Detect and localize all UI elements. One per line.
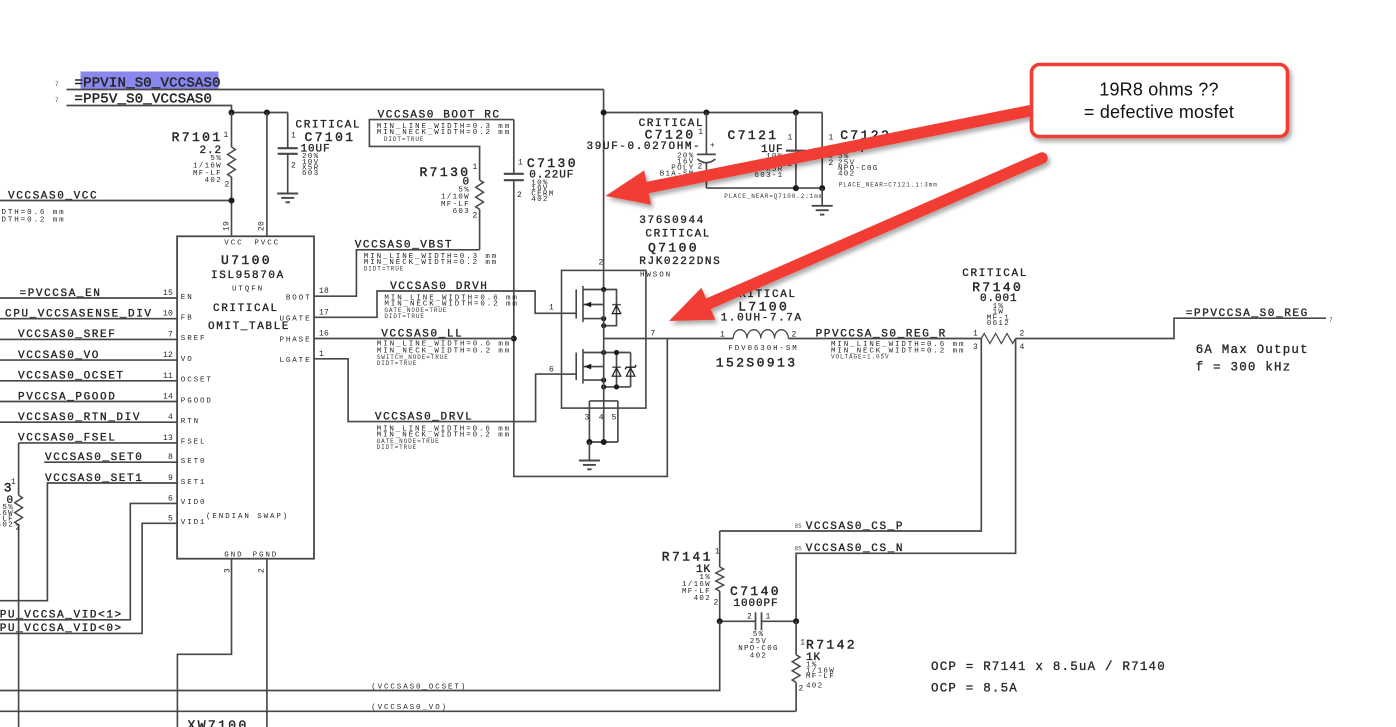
svg-text:2: 2 (225, 180, 230, 189)
svg-text:UGATE: UGATE (279, 315, 311, 323)
svg-text:CRITICAL: CRITICAL (645, 229, 711, 241)
svg-text:FDV0630H-SM: FDV0630H-SM (728, 345, 798, 353)
svg-text:VCCSAS0_OCSET: VCCSAS0_OCSET (18, 371, 125, 383)
net VCCSAS0_SET0 / pin 8 SET0 (44, 461, 177, 463)
svg-text:VID1: VID1 (181, 519, 207, 527)
wire VCC rail to C7101 (232, 112, 288, 114)
svg-text:= defective mosfet: = defective mosfet (1084, 102, 1234, 122)
svg-text:(VCCSAS0_VO): (VCCSAS0_VO) (371, 704, 448, 712)
svg-text:2: 2 (473, 211, 478, 220)
body diodes bottom mosfet (604, 352, 631, 354)
svg-text:1: 1 (319, 350, 324, 359)
svg-text:PLACE_NEAR=C7121.1:3mm: PLACE_NEAR=C7121.1:3mm (839, 181, 938, 188)
net CPU_VCCSASENSE_DIV / pin 10 FB (0, 318, 177, 320)
resistor R7141 (719, 531, 721, 567)
svg-text:DIDT=TRUE: DIDT=TRUE (364, 266, 405, 273)
svg-text:1.0UH-7.7A: 1.0UH-7.7A (721, 312, 803, 324)
svg-text:VID0: VID0 (181, 499, 207, 507)
svg-text:603: 603 (453, 208, 470, 216)
resistor R7130 (476, 180, 484, 209)
capacitor C7120 (polarized) (705, 113, 707, 155)
wire VBST / BOOT pin 18 (314, 250, 480, 296)
svg-text:PGOOD: PGOOD (181, 397, 213, 405)
wire input cap rail (604, 112, 823, 114)
wire VCCSAS0_CS_P (720, 339, 982, 532)
net VCCSAS0_RTN_DIV / pin 4 RTN (0, 421, 177, 423)
mosfet channel (562, 312, 577, 314)
wire PPVIN riser to Q7100 drain (603, 90, 605, 290)
capacitor C7122 (821, 113, 823, 151)
svg-text:402: 402 (531, 196, 548, 204)
svg-text:19R8 ohms ??: 19R8 ohms ?? (1099, 80, 1218, 100)
svg-text:OMIT_TABLE: OMIT_TABLE (208, 321, 290, 333)
svg-text:+: + (710, 142, 715, 151)
svg-text:39UF-0.027OHM-: 39UF-0.027OHM- (587, 141, 702, 153)
wire input cap bottom rail (706, 187, 822, 189)
transistor Q7100 package box (562, 270, 646, 408)
svg-text:(VCCSAS0_OCSET): (VCCSAS0_OCSET) (371, 683, 467, 691)
svg-text:4: 4 (1020, 343, 1025, 352)
svg-text:0612: 0612 (987, 320, 1010, 328)
svg-text:2: 2 (698, 162, 703, 171)
svg-text:14: 14 (163, 393, 173, 402)
svg-text:402: 402 (806, 683, 823, 691)
node C7140 left (717, 618, 723, 624)
svg-text:2: 2 (517, 191, 522, 200)
svg-text:1: 1 (715, 547, 720, 556)
svg-text:2: 2 (16, 524, 21, 533)
svg-text:R7101: R7101 (172, 130, 223, 145)
svg-text:85: 85 (795, 523, 803, 530)
wire PP5V_S0_VCCSAS0 (67, 106, 232, 113)
inductor L7100 (733, 330, 788, 339)
svg-text:OCP = 8.5A: OCP = 8.5A (931, 682, 1018, 696)
wire PPVIN_S0_VCCSAS0 (67, 89, 604, 91)
svg-text:PGND: PGND (253, 551, 279, 559)
svg-text:11: 11 (163, 372, 173, 381)
svg-text:1: 1 (720, 330, 725, 339)
svg-text:2: 2 (599, 259, 604, 268)
svg-text:R7141: R7141 (662, 550, 713, 565)
svg-text:16: 16 (319, 329, 329, 338)
node VCC rail junction (229, 110, 235, 116)
resistor R7142 (795, 621, 797, 655)
svg-text:7: 7 (651, 330, 656, 339)
svg-text:1: 1 (549, 304, 554, 313)
svg-text:20: 20 (258, 221, 267, 231)
svg-text:OCP = R7141 x 8.5uA / R7140: OCP = R7141 x 8.5uA / R7140 (931, 660, 1166, 674)
wire VID1 / pin 5 (0, 523, 177, 633)
svg-text:XW7100: XW7100 (188, 718, 249, 727)
svg-text:=PVCCSA_EN: =PVCCSA_EN (20, 288, 102, 300)
svg-text:PLACE_NEAR=Q7100.2:1mm: PLACE_NEAR=Q7100.2:1mm (724, 193, 823, 200)
svg-text:15: 15 (163, 289, 173, 298)
svg-text:C7140: C7140 (730, 584, 781, 599)
node VCC/R7101 junction (229, 198, 235, 204)
svg-text:VCCSAS0_VO: VCCSAS0_VO (18, 350, 100, 362)
svg-text:7: 7 (55, 97, 59, 104)
wire PGND pin 2 (266, 559, 268, 727)
svg-text:6: 6 (168, 494, 173, 503)
net VCCSAS0_SREF / pin 7 SREF (0, 338, 177, 340)
node PVCC branch junction (264, 110, 270, 116)
svg-text:DIDT=TRUE: DIDT=TRUE (384, 313, 425, 320)
svg-text:VCCSAS0_SREF: VCCSAS0_SREF (18, 329, 116, 341)
svg-text:9: 9 (168, 474, 173, 483)
svg-text:1: 1 (698, 128, 703, 137)
net VCCSAS0_OCSET / pin 11 OCSET (0, 380, 177, 382)
net VCCSAS0_FSEL / pin 13 FSEL (19, 442, 178, 444)
svg-text:VCC: VCC (224, 240, 243, 248)
resistor R7101 (231, 113, 233, 148)
svg-text:UTQFN: UTQFN (232, 285, 264, 293)
svg-text:VCCSAS0_CS_N: VCCSAS0_CS_N (806, 543, 904, 555)
svg-text:DIDT=TRUE: DIDT=TRUE (377, 444, 418, 451)
svg-text:1: 1 (766, 613, 771, 622)
svg-text:2: 2 (291, 162, 296, 171)
node C7121 top (793, 110, 799, 116)
svg-text:C7121: C7121 (728, 128, 779, 143)
mosfet channel (562, 373, 577, 375)
svg-text:R7142: R7142 (806, 638, 857, 653)
svg-text:FSEL: FSEL (181, 439, 207, 447)
svg-text:2: 2 (258, 568, 267, 573)
svg-text:SREF: SREF (181, 335, 207, 343)
wire inductor to R7140 (788, 338, 981, 340)
svg-text:VCCSAS0_FSEL: VCCSAS0_FSEL (18, 433, 116, 445)
svg-text:MF-LF: MF-LF (806, 673, 835, 681)
capacitor C7140 (720, 620, 756, 622)
capacitor C7101 (287, 113, 289, 149)
svg-text:SET1: SET1 (181, 479, 207, 487)
svg-text:5: 5 (168, 514, 173, 523)
svg-text:402: 402 (750, 652, 767, 660)
net PPVIN_S0_VCCSAS0 (highlighted) (81, 72, 219, 91)
svg-text:18: 18 (319, 287, 329, 296)
body diode top mosfet (604, 290, 617, 326)
wire BOOT RC net (369, 120, 513, 180)
svg-text:13: 13 (163, 434, 173, 443)
wire DRVH / UGATE pin 17 (314, 291, 562, 317)
svg-text:CPU_VCCSASENSE_DIV: CPU_VCCSASENSE_DIV (5, 309, 153, 321)
svg-text:2: 2 (747, 613, 752, 622)
svg-text:CRITICAL: CRITICAL (962, 268, 1028, 280)
node source pin join (586, 439, 592, 445)
resistor R7140 (981, 334, 1015, 344)
svg-text:1: 1 (11, 478, 16, 487)
svg-text:VOLTAGE=1.05V: VOLTAGE=1.05V (831, 354, 890, 361)
wire Q7100 source pins 3 4 5 (589, 400, 618, 402)
svg-text:8: 8 (168, 453, 173, 462)
net PVCCSA_PGOOD / pin 14 PGOOD (0, 401, 177, 403)
ground below Q7100 (588, 442, 590, 461)
svg-text:402: 402 (0, 521, 14, 529)
svg-text:3: 3 (973, 343, 978, 352)
svg-text:1: 1 (829, 134, 834, 143)
svg-text:GND: GND (224, 551, 243, 559)
net VCCSAS0_SET1 / pin 9 SET1 (0, 483, 177, 601)
svg-text:2: 2 (829, 159, 834, 168)
wire PVCC pin 20 (266, 113, 268, 237)
node C7121 bottom (793, 185, 799, 191)
svg-text:1: 1 (973, 329, 978, 338)
svg-text:(ENDIAN SWAP): (ENDIAN SWAP) (206, 513, 289, 521)
svg-text:SET0: SET0 (181, 458, 207, 466)
svg-text:402: 402 (694, 595, 711, 603)
annotation arrow 2 to phase node (669, 158, 1042, 321)
ground below input caps (821, 188, 823, 206)
svg-text:7: 7 (1329, 317, 1333, 324)
svg-text:4: 4 (168, 413, 173, 422)
svg-text:ISL95870A: ISL95870A (211, 270, 285, 282)
svg-text:2: 2 (799, 685, 804, 694)
node C7122 bottom (819, 185, 825, 191)
svg-text:DIDT=TRUE: DIDT=TRUE (384, 136, 425, 143)
svg-text:CRITICAL: CRITICAL (213, 303, 279, 315)
svg-text:=PPVCCSA_S0_REG: =PPVCCSA_S0_REG (1186, 308, 1309, 320)
svg-text:1: 1 (518, 158, 523, 167)
node C7120 top (703, 110, 709, 116)
svg-text:1: 1 (224, 131, 229, 140)
wire VCCSAS0_OCSET bottom (0, 621, 720, 690)
svg-text:2: 2 (714, 598, 719, 607)
svg-text:VO: VO (181, 356, 194, 364)
svg-text:VCCSAS0_SET0: VCCSAS0_SET0 (45, 452, 143, 464)
capacitor C7121 (795, 113, 797, 151)
wire DRVL / LGATE pin 1 (314, 359, 562, 422)
svg-text:U7100: U7100 (221, 253, 272, 268)
svg-text:PHASE: PHASE (279, 336, 311, 344)
svg-text:152S0913: 152S0913 (716, 355, 798, 370)
svg-text:EN: EN (181, 294, 194, 302)
op-amp U7100 ISL95870A controller box (177, 236, 314, 558)
svg-text:376S0944: 376S0944 (639, 215, 705, 227)
net VCCSAS0_VO / pin 12 VO (0, 359, 177, 361)
svg-text:BOOT: BOOT (286, 294, 312, 302)
svg-text:85: 85 (795, 545, 803, 552)
svg-text:603-1: 603-1 (754, 172, 783, 180)
svg-text:Q7100: Q7100 (648, 240, 699, 255)
wire VCCSAS0_VO bottom (0, 710, 796, 712)
svg-text:402: 402 (205, 177, 222, 185)
svg-text:f = 300 kHz: f = 300 kHz (1196, 361, 1292, 375)
svg-text:2: 2 (1020, 329, 1025, 338)
node PPVIN branch (601, 110, 607, 116)
svg-text:6: 6 (549, 366, 554, 375)
svg-text:DIDT=TRUE: DIDT=TRUE (377, 360, 418, 367)
svg-text:12: 12 (163, 351, 173, 360)
node C7130/LL junction (511, 336, 517, 342)
wire VCCSAS0_VCC (0, 200, 232, 202)
svg-text:17: 17 (319, 308, 329, 317)
wire GND pin 3 to XW7100 (177, 559, 231, 727)
wire phase to inductor (604, 338, 734, 340)
svg-text:PVCC: PVCC (254, 240, 280, 248)
svg-text:7: 7 (55, 81, 59, 88)
svg-text:DTH=0.2 mm: DTH=0.2 mm (2, 216, 66, 224)
svg-text:VCCSAS0_SET1: VCCSAS0_SET1 (45, 473, 143, 485)
wire LL / PHASE pin 16 (314, 338, 514, 340)
svg-text:LGATE: LGATE (279, 357, 311, 365)
svg-text:PVCCSA_PGOOD: PVCCSA_PGOOD (18, 391, 116, 403)
svg-text:1000PF: 1000PF (734, 598, 779, 610)
svg-text:1: 1 (473, 163, 478, 172)
resistor R7103 (cut at left edge) (18, 443, 20, 495)
svg-text:402: 402 (838, 170, 855, 178)
svg-text:FB: FB (181, 315, 194, 323)
svg-text:7: 7 (168, 330, 173, 339)
net =PVCCSA_EN / pin 15 EN (0, 297, 177, 299)
svg-text:RJK0222DNS: RJK0222DNS (639, 256, 721, 268)
svg-text:19: 19 (223, 221, 232, 231)
svg-text:VCCSAS0_CS_P: VCCSAS0_CS_P (806, 521, 904, 533)
svg-text:6A Max Output: 6A Max Output (1196, 343, 1309, 357)
svg-text:RTN: RTN (181, 418, 200, 426)
wire VID0 / pin 6 (0, 503, 177, 619)
svg-text:10: 10 (163, 310, 173, 319)
svg-text:603: 603 (302, 170, 319, 178)
svg-text:VCCSAS0_RTN_DIV: VCCSAS0_RTN_DIV (18, 412, 141, 424)
wire R7140 to output (1016, 318, 1326, 338)
node C7140 right (793, 618, 799, 624)
ground below C7101 (277, 193, 298, 195)
wire C7130 to phase node (514, 339, 668, 477)
wire Q7100 internal source/drain column (603, 290, 605, 401)
wire VCCSAS0_CS_N (796, 339, 1016, 622)
svg-text:5: 5 (612, 414, 617, 423)
svg-text:1: 1 (800, 639, 805, 648)
svg-text:1: 1 (291, 132, 296, 141)
svg-text:1: 1 (788, 134, 793, 143)
svg-text:HWSON: HWSON (640, 271, 672, 279)
annotation box 19R8 ohms = defective mosfet (1032, 65, 1288, 137)
annotation arrow 1 to C7130/phase area (606, 111, 1030, 205)
svg-text:OCSET: OCSET (181, 377, 213, 385)
capacitor C7130 (513, 120, 515, 174)
